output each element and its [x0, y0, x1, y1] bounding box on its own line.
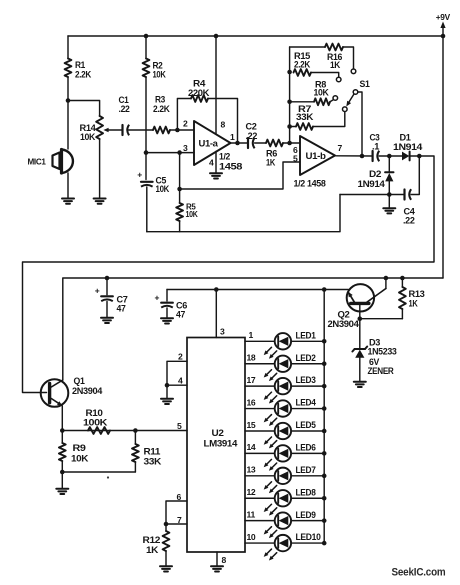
- ground U1-a pin 4: [210, 173, 222, 178]
- wire R5 bottom lead: [179, 221, 181, 232]
- svg-text:14: 14: [247, 442, 256, 452]
- svg-text:12: 12: [247, 487, 256, 497]
- node C7 supply tap: [105, 276, 110, 281]
- wire detector output loop to Q1 base: [23, 156, 435, 393]
- svg-text:10K: 10K: [71, 454, 89, 464]
- LED5: [245, 420, 327, 449]
- resistor R6: [266, 140, 283, 168]
- node detector input: [387, 154, 392, 159]
- potentiometer R14: [80, 116, 122, 142]
- svg-text:5: 5: [177, 421, 182, 431]
- svg-text:LED8: LED8: [296, 487, 316, 497]
- svg-text:LED5: LED5: [296, 420, 316, 430]
- svg-text:1K: 1K: [409, 299, 419, 309]
- wire top +9V supply rail: [68, 35, 443, 37]
- svg-text:10K: 10K: [80, 132, 96, 142]
- wire mic top lead: [67, 101, 69, 150]
- capacitor C4: [403, 189, 415, 225]
- wire R14 bottom lead: [99, 139, 101, 199]
- svg-text:1K: 1K: [330, 60, 341, 70]
- svg-text:U1-a: U1-a: [199, 139, 218, 149]
- svg-text:2N3904: 2N3904: [72, 386, 102, 396]
- svg-text:6: 6: [293, 145, 298, 155]
- switch contact c (R8): [333, 96, 338, 101]
- wire U2 pin 4 run: [167, 376, 187, 386]
- node U2 pin 3 tap: [214, 287, 219, 292]
- transistor Q1: [41, 376, 103, 407]
- node pin8 rail tap: [214, 34, 219, 39]
- svg-text:+9V: +9V: [436, 12, 451, 22]
- capacitor C3: [370, 133, 380, 162]
- op-amp U1-a: [194, 120, 242, 172]
- svg-text:2.2K: 2.2K: [75, 70, 92, 80]
- svg-text:100K: 100K: [83, 418, 108, 428]
- microphone MIC1: [28, 150, 73, 174]
- svg-text:13: 13: [247, 465, 256, 475]
- resistor R10: [83, 408, 110, 434]
- svg-text:1N914: 1N914: [393, 142, 422, 152]
- node R10 / R11 / pin5: [133, 428, 138, 433]
- wire +9V lower rail: [63, 278, 443, 380]
- diode D1: [393, 133, 422, 161]
- switch S1 pole: [353, 79, 370, 94]
- svg-text:6: 6: [177, 492, 182, 502]
- capacitor C6: [155, 293, 188, 320]
- wire R2 top lead: [145, 36, 147, 58]
- resistor R11: [132, 431, 162, 473]
- wire R16 to contact: [343, 47, 354, 69]
- svg-text:3: 3: [183, 143, 188, 153]
- capacitor C2: [246, 122, 258, 149]
- wire C2 to R6: [255, 142, 266, 144]
- node R9 bottom / ground: [60, 470, 65, 475]
- svg-text:1/2 1458: 1/2 1458: [294, 179, 326, 189]
- ground mic: [62, 199, 74, 204]
- svg-text:1N5233: 1N5233: [368, 347, 397, 357]
- wire S1 pole to output: [358, 92, 362, 156]
- wire U2 pin 5 signal run: [62, 421, 187, 431]
- wire U2 pin 2 run: [167, 352, 187, 386]
- svg-text:10K: 10K: [186, 209, 199, 219]
- resistor R9: [59, 443, 89, 464]
- wire regulated rail (Q2 emitter): [167, 289, 348, 291]
- switch contact a (R16): [351, 69, 356, 74]
- resistor R4: [188, 79, 210, 102]
- transistor Q2: [328, 284, 386, 329]
- svg-text:D2: D2: [369, 169, 381, 179]
- svg-text:10: 10: [247, 532, 256, 542]
- wire Q1 emitter lead: [61, 406, 63, 431]
- svg-text:LED10: LED10: [296, 532, 321, 542]
- wire bottom bias rail: [147, 195, 340, 232]
- svg-text:LED4: LED4: [296, 398, 316, 408]
- wire R6 to U1-b pin 6: [283, 143, 300, 155]
- node +9V rail / supply arrow junction: [441, 34, 446, 39]
- wire bias node to U1-a pin 3: [146, 143, 194, 153]
- LED9: [245, 509, 327, 538]
- wire C6 bottom lead: [166, 308, 168, 318]
- wire R7 left lead: [290, 126, 296, 128]
- resistor R2: [143, 59, 167, 80]
- switch contact b (R15): [336, 77, 341, 82]
- svg-text:47: 47: [117, 304, 126, 314]
- wire C7 top lead: [106, 278, 108, 295]
- ground C6: [161, 318, 173, 323]
- svg-text:+: +: [95, 286, 100, 296]
- ground D2/C4 node: [383, 195, 395, 214]
- node R5 top tap: [177, 150, 182, 155]
- svg-text:17: 17: [247, 375, 256, 385]
- wire LED anode rail: [323, 290, 325, 544]
- ground U2 pin 8: [211, 566, 223, 571]
- node U1-a inverting input: [175, 128, 180, 133]
- switch contact d (R7): [343, 107, 348, 112]
- resistor R3: [153, 95, 170, 134]
- wire R9 top lead: [61, 431, 63, 444]
- wire R4 feedback loop: [177, 99, 237, 144]
- wire D1 to output node: [410, 155, 420, 157]
- wire D3 top lead: [359, 319, 361, 349]
- svg-text:11: 11: [247, 509, 256, 519]
- svg-text:U2: U2: [212, 428, 224, 438]
- wire Q2 base lead: [359, 305, 361, 319]
- svg-text:2N3904: 2N3904: [328, 319, 359, 329]
- ground R9/R11: [56, 472, 68, 494]
- svg-text:U1-b: U1-b: [306, 151, 327, 161]
- svg-text:R12: R12: [143, 535, 161, 545]
- svg-text:3: 3: [220, 327, 225, 337]
- wire U2 pin 8 lead: [217, 552, 227, 566]
- svg-text:2: 2: [178, 352, 183, 362]
- svg-text:LED3: LED3: [296, 375, 316, 385]
- capacitor C5: [137, 170, 169, 194]
- wire U1-a output: [230, 132, 248, 143]
- svg-text:+: +: [137, 170, 142, 180]
- wire R3 to U1-a pin 2: [170, 119, 194, 131]
- svg-text:2.2K: 2.2K: [294, 60, 311, 70]
- svg-text:R3: R3: [155, 95, 165, 105]
- svg-text:15: 15: [247, 420, 256, 430]
- node U1-b inverting input: [287, 141, 292, 146]
- resistor R13: [399, 278, 425, 319]
- switch S1 lever: [346, 94, 354, 106]
- LED3: [245, 375, 327, 404]
- wire D2 node to C4: [389, 194, 404, 196]
- diode D2: [358, 156, 394, 195]
- node Q1 emitter / R9 / R10: [60, 428, 65, 433]
- wire C1 to R3: [129, 129, 154, 131]
- svg-text:LM3914: LM3914: [204, 439, 239, 449]
- resistor R15: [294, 51, 312, 76]
- ground U2 pins 2,4: [161, 385, 173, 404]
- svg-text:10K: 10K: [314, 88, 330, 98]
- svg-text:R1: R1: [75, 60, 85, 70]
- svg-text:Q1: Q1: [74, 376, 85, 386]
- wire R5 rail: [179, 153, 181, 203]
- node LED anode rail tap: [322, 287, 327, 292]
- svg-text:1: 1: [249, 330, 254, 340]
- LED1: [245, 330, 327, 359]
- svg-text:1K: 1K: [266, 158, 276, 168]
- svg-text:2: 2: [183, 119, 188, 129]
- svg-text:18: 18: [247, 353, 256, 363]
- wire +9V vertical rail: [442, 36, 444, 278]
- svg-text:1K: 1K: [146, 545, 159, 555]
- resistor R7: [296, 104, 314, 130]
- wire mic bottom lead: [67, 173, 69, 199]
- resistor R8: [314, 80, 331, 106]
- wire Q2 collector to +9V: [385, 278, 387, 289]
- node R5 / pin5 feedback tap: [177, 187, 182, 192]
- svg-text:R11: R11: [144, 447, 161, 457]
- wire U1-b output pin 7: [335, 143, 373, 156]
- zener diode D3: [352, 338, 396, 382]
- op-amp U1-b: [294, 136, 336, 189]
- wire U1-a pin 4 stub: [215, 152, 217, 174]
- LED8: [245, 487, 327, 516]
- ground R14: [94, 199, 106, 204]
- resistor R1: [65, 59, 92, 80]
- wire node to R14 top: [68, 101, 100, 117]
- svg-text:SeekIC.com: SeekIC.com: [392, 567, 446, 579]
- wire R8 left lead: [290, 101, 314, 103]
- node R1/mic junction: [66, 98, 71, 103]
- wire R11 bottom run: [62, 471, 135, 473]
- svg-text:R9: R9: [73, 443, 86, 453]
- wire U1-a pin 8 to supply: [215, 36, 217, 134]
- watermark SeekIC.com: [392, 567, 446, 579]
- svg-text:1: 1: [230, 132, 235, 142]
- wire D2 node run to bias rail: [340, 194, 389, 196]
- ground D3: [354, 382, 366, 387]
- LED4: [245, 397, 327, 426]
- capacitor C1: [119, 95, 130, 135]
- node pin2/pin4 tie: [165, 383, 170, 388]
- wire gain-select left rail: [289, 47, 291, 143]
- svg-text:10K: 10K: [153, 70, 167, 80]
- svg-text:.22: .22: [119, 104, 130, 114]
- wire base node to R13: [360, 318, 403, 320]
- svg-text:220K: 220K: [188, 88, 210, 98]
- svg-text:8: 8: [222, 555, 227, 565]
- svg-text:LED7: LED7: [296, 465, 316, 475]
- svg-text:5: 5: [293, 154, 298, 164]
- wire R2 bottom to bias node: [145, 77, 147, 153]
- LED7: [245, 465, 327, 494]
- wire U2 pin 6 run: [166, 492, 187, 524]
- wire C5 bottom lead: [146, 187, 148, 232]
- node U1-a output: [235, 141, 240, 146]
- svg-text:S1: S1: [360, 79, 370, 89]
- node S1 output tap: [360, 154, 365, 159]
- node R7 rail tap: [287, 124, 292, 129]
- node R13 supply tap: [400, 276, 405, 281]
- LED2: [245, 353, 327, 382]
- resistor R12: [143, 524, 170, 566]
- LED6: [245, 442, 327, 471]
- wire R9 bottom lead: [61, 461, 63, 472]
- wire R8 to contact: [330, 100, 333, 102]
- svg-text:ZENER: ZENER: [368, 366, 395, 376]
- svg-text:1/2: 1/2: [219, 152, 230, 162]
- node Q2 collector tap: [384, 276, 389, 281]
- svg-text:LED1: LED1: [296, 330, 316, 340]
- svg-text:33K: 33K: [144, 457, 162, 467]
- wire C4 to D1 output: [411, 156, 419, 195]
- wire C7 bottom lead: [106, 302, 108, 318]
- ground C7: [101, 318, 113, 323]
- svg-text:.1: .1: [372, 142, 379, 152]
- wire pin5 feedback run: [180, 154, 300, 190]
- svg-text:R13: R13: [409, 289, 425, 299]
- capacitor C7: [95, 286, 128, 314]
- wire C5 top lead: [145, 153, 147, 180]
- svg-text:1458: 1458: [219, 162, 242, 172]
- wire C3 to D1: [379, 155, 402, 157]
- wire R7 to contact: [313, 112, 345, 127]
- wire U2 pin 7 run: [166, 515, 187, 525]
- svg-text:Q2: Q2: [338, 310, 350, 320]
- svg-text:10K: 10K: [156, 184, 170, 194]
- +9V supply arrow: [436, 12, 451, 36]
- svg-text:47: 47: [176, 310, 185, 320]
- svg-text:16: 16: [247, 397, 256, 407]
- wire R1 top lead: [67, 36, 69, 58]
- node D2 ground node: [387, 192, 392, 197]
- svg-text:.22: .22: [403, 216, 415, 226]
- node bias divider: [144, 150, 149, 155]
- svg-text:LED2: LED2: [296, 353, 316, 363]
- resistor R16: [325, 44, 343, 70]
- svg-text:4: 4: [178, 376, 183, 386]
- LED10: [245, 532, 327, 561]
- node D1 output: [417, 154, 422, 159]
- svg-text:+: +: [155, 293, 160, 303]
- wire R1 bottom lead: [67, 77, 69, 101]
- svg-text:4: 4: [209, 158, 214, 168]
- wire U2 pin 3 lead: [216, 290, 225, 338]
- node pin6/pin7 tie: [164, 522, 169, 527]
- svg-text:7: 7: [177, 515, 182, 525]
- svg-text:LED9: LED9: [296, 510, 316, 520]
- svg-text:33K: 33K: [296, 112, 314, 122]
- node R8 rail tap: [287, 100, 292, 105]
- wire C6 top lead: [166, 290, 168, 302]
- node R2 top: [144, 34, 149, 39]
- node R15 rail tap: [287, 70, 292, 75]
- IC U2 LM3914: [187, 338, 245, 553]
- wire R15 to contact: [311, 73, 339, 78]
- svg-text:1N914: 1N914: [358, 179, 385, 189]
- wire R16 top run: [290, 46, 325, 48]
- ground R12: [160, 566, 172, 571]
- svg-text:LED6: LED6: [296, 443, 316, 453]
- node Q2 base node: [358, 316, 363, 321]
- svg-text:MIC1: MIC1: [28, 157, 47, 166]
- svg-text:R10: R10: [86, 408, 103, 418]
- speck artifact: [107, 476, 109, 478]
- resistor R5: [176, 202, 198, 222]
- svg-text:2.2K: 2.2K: [153, 104, 170, 114]
- svg-text:7: 7: [338, 143, 343, 153]
- svg-text:8: 8: [221, 120, 226, 130]
- svg-text:.22: .22: [246, 131, 258, 141]
